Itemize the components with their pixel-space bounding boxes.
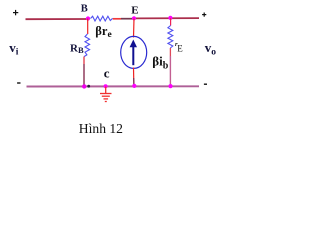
node (r_E top) [168,16,172,20]
wire (node B down to R_B) [87,19,89,35]
wire (current source lead lower part) [133,78,135,87]
wire (r_E to bottom rail) [169,48,171,56]
svg-text:βre: βre [95,24,111,40]
node (current source bottom) [132,84,136,88]
svg-text:RB: RB [70,42,84,55]
svg-text:E: E [131,5,138,17]
wire (current source to bottom rail) [133,68,135,79]
wire (top rail to r_E) [170,18,172,26]
current source βi_b [121,36,147,68]
wire (node E to + right) [134,17,199,19]
resistor R_B (vertical zigzag) [84,34,89,57]
wire (r_E lead lower part) [169,56,171,86]
node B [86,16,90,20]
node (r_E bottom) [168,84,172,88]
resistor r_E (vertical zigzag) [168,26,173,49]
svg-text:βib: βib [152,53,168,71]
wire (node E down to current source) [133,19,136,38]
node E [132,16,136,20]
junction dot (dark, bottom rail) [87,85,90,88]
wire top-left (+ to node B) [26,18,89,20]
svg-text:E: E [177,44,183,54]
wire (R_B down to bottom rail) [83,57,85,65]
node (R_B bottom) [82,84,86,88]
ground [100,87,112,102]
+ terminal right [202,13,206,17]
svg-text:B: B [81,4,88,15]
+ terminal left [13,10,18,15]
- terminal left [17,82,20,84]
svg-text:c: c [104,65,110,80]
wire (βr_e to node E) [113,18,121,20]
svg-text:vo: vo [205,40,217,57]
wire (overlap segment to node E) [121,18,134,20]
- terminal right [204,83,207,85]
resistor βr_e (horizontal zigzag B to E) [91,16,113,21]
svg-text:vi: vi [9,40,18,58]
svg-text:Hình 12: Hình 12 [79,121,123,136]
wire (R_B lead lower part) [83,64,85,87]
node C (ground node) [104,84,108,88]
bottom rail wire [27,85,200,87]
